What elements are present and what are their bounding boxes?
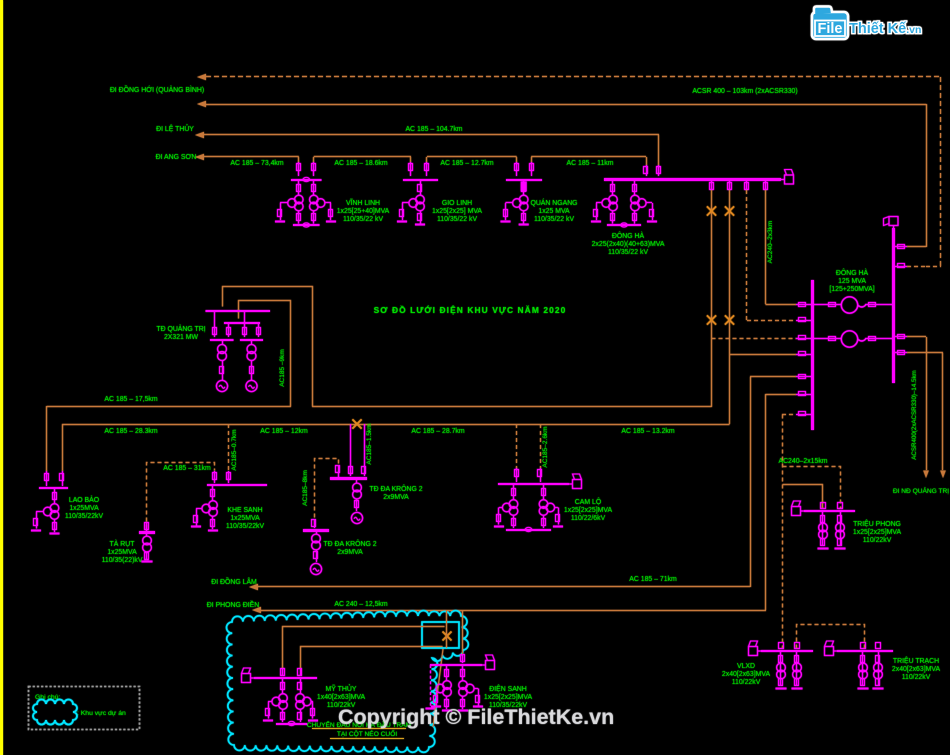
svg-text:1x25MVA: 1x25MVA <box>230 515 260 522</box>
svg-text:AC 185 – 28.3km: AC 185 – 28.3km <box>104 428 158 435</box>
switches above Lao Bao bus <box>46 471 48 486</box>
svg-text:1x25[25+40]MVA: 1x25[25+40]MVA <box>337 208 390 215</box>
bus DONG HA 220kV left (vertical) <box>811 280 814 430</box>
feeder x=765.5 from Dong Ha bus <box>765 180 767 191</box>
generator G1 <box>216 380 227 391</box>
bus TD QUANG TRI lower <box>224 322 260 324</box>
bus KHE SANH <box>207 484 267 486</box>
transformer VINH LINH T2 (3-winding) <box>313 180 315 196</box>
generator G2 <box>246 380 257 391</box>
wire dashed link VLXD to Trieu Trach <box>797 625 865 649</box>
arrow to Le Thuy <box>195 132 204 138</box>
stub y=414 dashed to left bus (AC240 feeder) <box>782 414 796 416</box>
wire from Phong Dien line down through X box <box>446 610 448 648</box>
arrow to Ang Son <box>195 154 204 160</box>
bus MY THUY <box>254 677 317 679</box>
bus generator bay 2 <box>240 339 263 341</box>
transformer TRIEU TRACH T1 (2-winding) <box>862 651 864 685</box>
wire dashed branch to Trieu Phong right <box>783 467 841 509</box>
transformer DONG HA T1 (3-winding) <box>612 180 614 196</box>
bus TRIEU PHONG <box>804 510 855 512</box>
svg-text:AC 240 – 12,5km: AC 240 – 12,5km <box>334 601 388 608</box>
svg-text:TĐ ĐA KRÔNG 2: TĐ ĐA KRÔNG 2 <box>323 539 376 548</box>
svg-text:110/22kV: 110/22kV <box>902 674 931 681</box>
stub y=320 dashed to left bus <box>747 320 796 322</box>
svg-text:2X321 MW: 2X321 MW <box>164 334 199 341</box>
svg-text:MỸ THỦY: MỸ THỦY <box>326 684 357 693</box>
switches above VLXD bus <box>779 643 784 649</box>
svg-text:1x40[2x63]MVA: 1x40[2x63]MVA <box>317 694 366 701</box>
stub y=337 right bus to ND Quang Tri 1 <box>893 336 907 338</box>
svg-text:File: File <box>818 21 843 37</box>
svg-text:AC 185 – 31km: AC 185 – 31km <box>163 465 211 472</box>
switches above Da Krong upper bus <box>336 466 340 473</box>
svg-text:ACSR400(2xACSR330)–14.5km: ACSR400(2xACSR330)–14.5km <box>911 370 918 459</box>
svg-text:2x40[2x63]MVA: 2x40[2x63]MVA <box>722 671 771 678</box>
drawing left border (yellow) <box>0 0 3 755</box>
transformer TRIEU PHONG T2 (2-winding) <box>840 511 842 545</box>
wire Ang Son line segment 3 (12.7km) <box>427 156 517 158</box>
svg-text:110/22kV: 110/22kV <box>863 537 892 544</box>
substation TA RUT <box>146 522 148 531</box>
transformer KHE SANH (3-winding) <box>212 485 214 501</box>
transformer VINH LINH T1 (3-winding) <box>298 180 300 196</box>
svg-text:110/22/6kV: 110/22/6kV <box>571 515 606 522</box>
svg-text:TÀ RỤT: TÀ RỤT <box>110 539 136 548</box>
legend cloud symbol <box>33 700 77 725</box>
ground bar CAM LO <box>506 529 551 531</box>
svg-text:ĐI ANG SƠN: ĐI ANG SƠN <box>156 154 197 161</box>
svg-text:110/35/22kV: 110/35/22kV <box>65 513 104 520</box>
svg-text:AC 185 – 17,5km: AC 185 – 17,5km <box>104 396 158 403</box>
svg-text:110/35(22)kV: 110/35(22)kV <box>102 557 143 564</box>
wire solid 110kV line to Dong Hoi (y=104) <box>206 104 926 106</box>
svg-text:1x25[2x25]MVA: 1x25[2x25]MVA <box>484 694 533 701</box>
svg-text:110/35/22 kV: 110/35/22 kV <box>534 216 575 223</box>
feeder x=747 dashed from Dong Ha bus <box>746 180 748 191</box>
transformer DONG HA 125MVA T1 <box>812 304 841 306</box>
svg-text:VLXD: VLXD <box>737 663 755 670</box>
wire vertical x=646 down to Dong Ha bus <box>646 157 648 165</box>
svg-text:CAM LỘ: CAM LỘ <box>575 497 602 506</box>
svg-text:ĐI ĐỒNG HỚI (QUẢNG BÌNH): ĐI ĐỒNG HỚI (QUẢNG BÌNH) <box>110 84 204 94</box>
transformer MY THUY T1 (3-winding) <box>282 678 284 694</box>
wire ACSR400 vertical dashed at right edge x=943 <box>940 77 942 266</box>
breaker flag at right end of Dong Ha bus <box>781 170 794 185</box>
transformer TRIEU PHONG T1 (2-winding) <box>822 511 824 545</box>
wire 28.3km line (y=424) <box>62 424 730 426</box>
wire Quang Tri feeder lower <box>239 301 291 407</box>
switches above Trieu Phong bus <box>821 503 826 509</box>
generator DA KRONG 2 lower <box>310 563 321 574</box>
dashed magenta tie at left of Dien Sanh <box>430 665 432 707</box>
svg-text:AC 185 – 11km: AC 185 – 11km <box>567 160 614 167</box>
svg-text:[125+250MVA]: [125+250MVA] <box>829 286 874 293</box>
transformer DA KRONG 2 upper (2-winding) <box>356 479 358 484</box>
grounds DIEN SANH <box>442 710 452 712</box>
bus DIEN SANH <box>430 664 482 666</box>
svg-text:KHE SANH: KHE SANH <box>227 507 262 514</box>
breaker flag left end Trieu Trach bus <box>825 641 838 656</box>
transformer QUAN NGANG (3-winding) <box>521 182 526 191</box>
transformer DIEN SANH T2 (3-winding) <box>462 665 464 681</box>
svg-text:: Khu vực dự án: : Khu vực dự án <box>77 710 126 717</box>
wire Lao Bao feeder 1 <box>46 406 48 471</box>
svg-text:AC 185 – 12km: AC 185 – 12km <box>260 428 308 435</box>
transformer MY THUY T2 (3-winding) <box>300 678 302 694</box>
svg-text:AC185–0.7km: AC185–0.7km <box>231 429 238 470</box>
svg-text:LAO BẢO: LAO BẢO <box>69 495 100 504</box>
wire dashed AC185-8km feeder <box>315 459 339 525</box>
arrows to ND Quang Tri <box>923 471 929 479</box>
substation GIO LINH feeders down from line <box>410 157 412 162</box>
svg-text:VĨNH LINH: VĨNH LINH <box>346 198 380 207</box>
wire vertical x=926 from line y=104 down to Dong Ha right bus <box>926 104 928 247</box>
breaker flag left end VLXD bus <box>749 641 762 656</box>
wire feeder 1 to My Thuy <box>283 627 445 669</box>
svg-text:1x25 MVA: 1x25 MVA <box>538 208 570 215</box>
wire dashed AC240-2x15km <box>782 415 784 649</box>
wire vertical x=750 up to left bus stub <box>750 377 752 587</box>
transformer TRIEU TRACH T2 (2-winding) <box>878 651 880 685</box>
bus TD QUANG TRI upper <box>206 310 271 312</box>
bus DONG HA 110kV main <box>604 178 781 181</box>
wire Quang Tri feeder upper (AC185-9km right) <box>223 287 313 407</box>
ground bar DONG HA <box>607 224 641 226</box>
svg-text:AC 185 – 28.7km: AC 185 – 28.7km <box>411 428 465 435</box>
stub y=305 to left bus <box>766 304 797 306</box>
svg-text:AC 185 – 104.7km: AC 185 – 104.7km <box>405 126 462 133</box>
bus GIO LINH 110kV <box>403 179 438 181</box>
node drops to generator buses <box>214 311 216 337</box>
breaker flag right end Dien Sanh bus <box>482 655 495 670</box>
transformer VLXD T2 (2-winding) <box>796 651 798 685</box>
wire line to Ang Son (y=157) segment 1 <box>204 156 299 158</box>
svg-text:2x25(2x40)(40+63)MVA: 2x25(2x40)(40+63)MVA <box>592 241 665 248</box>
svg-text:ĐI PHONG ĐIỀN: ĐI PHONG ĐIỀN <box>207 599 259 609</box>
wire right segment y=407 from Quang Tri to Dong Ha feeder <box>312 406 712 408</box>
wire AC 185 - 17.5km line (y=406) <box>47 406 291 408</box>
svg-text:1x25[2x25]MVA: 1x25[2x25]MVA <box>853 529 902 536</box>
switches above Khe Sanh bus <box>214 471 216 483</box>
svg-text:2x40[2x63]MVA: 2x40[2x63]MVA <box>892 666 941 673</box>
wire DI DONG LAM line (y=587) <box>258 586 750 588</box>
switches above Cam Lo bus <box>516 468 518 482</box>
transformer DIEN SANH T1 (3-winding) <box>446 665 448 681</box>
substation TD DA KRONG 2 lower <box>314 519 316 528</box>
wire line to Le Thuy (y=135) <box>204 134 659 136</box>
bus QUAN NGANG 110kV <box>506 179 542 181</box>
svg-text:Copyright © FileThietKe.vn: Copyright © FileThietKe.vn <box>338 705 614 729</box>
svg-text:GIO LINH: GIO LINH <box>442 200 472 207</box>
svg-text:QUÁN NGANG: QUÁN NGANG <box>530 198 577 207</box>
svg-text:1x25MVA: 1x25MVA <box>69 505 99 512</box>
feeder x=729 from Dong Ha bus (to 13.2km line) <box>729 180 731 191</box>
wire feeder from Phong Dien line to Dien Sanh <box>462 610 464 655</box>
svg-text:TRIỆU TRẠCH: TRIỆU TRẠCH <box>893 656 939 665</box>
wire Ang Son line segment 2 (18.6km) <box>314 156 411 158</box>
ground bar MY THUY <box>276 723 307 725</box>
transformer G2 (2-winding) <box>251 341 253 345</box>
generator DA KRONG 2 upper <box>351 512 362 523</box>
transformer VLXD T1 (2-winding) <box>780 651 782 685</box>
wire dashed AC185-31km from Ta Rut to Khe Sanh <box>147 463 215 529</box>
bus VLXD <box>761 650 813 652</box>
bus generator bay 1 <box>210 339 234 341</box>
wire Lao Bao feeder 2 <box>62 424 64 471</box>
svg-text:110/35/22 kV: 110/35/22 kV <box>608 249 649 256</box>
stub y=338 dashed to left bus <box>712 338 797 340</box>
logo FileThietKe.vn top right <box>812 7 921 40</box>
transformer CAM LO T1 (3-winding) <box>513 484 515 500</box>
svg-text:ĐI NĐ QUẢNG TRỊ: ĐI NĐ QUẢNG TRỊ <box>893 486 949 495</box>
stub y=394 to left bus (Phong Dien feeder) <box>766 394 797 396</box>
wire feeder 2 to My Thuy <box>301 647 443 669</box>
arrow to Dong Lam <box>249 584 258 590</box>
wire vertical x=659 down to Dong Ha bus <box>658 135 660 165</box>
svg-text:110/22kV: 110/22kV <box>732 679 761 686</box>
wire vertical x=766 up to left bus stub <box>765 394 767 610</box>
svg-text:TĐ QUẢNG TRỊ: TĐ QUẢNG TRỊ <box>156 324 205 333</box>
leader diagonal to note text <box>433 649 443 727</box>
svg-text:110/35/22kV: 110/35/22kV <box>226 523 265 530</box>
breaker flag left end My Thuy bus <box>242 668 255 683</box>
svg-text:ĐIỆN SANH: ĐIỆN SANH <box>489 684 527 693</box>
wire Ang Son line segment 4 (11km) <box>531 156 646 158</box>
svg-text:2x9MVA: 2x9MVA <box>383 494 409 501</box>
wire DI PHONG DIEN line (y=610) <box>261 610 766 612</box>
stub y=377 to left bus (Dong Lam feeder) <box>750 376 796 378</box>
transformer G1 (2-winding) <box>222 341 224 345</box>
svg-text:1x25[2x25]MVA: 1x25[2x25]MVA <box>564 507 613 514</box>
svg-text:ACSR 400 – 103km (2xACSR330): ACSR 400 – 103km (2xACSR330) <box>692 88 797 95</box>
bus TD DA KRONG 2 upper <box>330 477 367 480</box>
svg-text:TẠI CỘT NÉO CUỐI: TẠI CỘT NÉO CUỐI <box>337 728 397 738</box>
switches above Trieu Trach bus <box>861 643 866 649</box>
arrow to Dong Hoi (dashed line) <box>197 74 206 80</box>
svg-text:SƠ ĐỒ LƯỚI ĐIỆN KHU VỰC NĂM 20: SƠ ĐỒ LƯỚI ĐIỆN KHU VỰC NĂM 2020 <box>374 304 567 315</box>
svg-text:Thiết Kế.vn: Thiết Kế.vn <box>849 21 921 37</box>
legend box <box>29 687 140 730</box>
bus TRIEU TRACH <box>837 650 893 652</box>
svg-text:2x9MVA: 2x9MVA <box>337 549 363 556</box>
svg-text:AC240–2x15km: AC240–2x15km <box>778 458 827 465</box>
svg-text:110/35/22 kV: 110/35/22 kV <box>437 216 478 223</box>
bus LAO BAO <box>39 487 68 489</box>
stub y=354 to left bus <box>730 354 797 356</box>
transformer DONG HA 125MVA T2 <box>812 338 841 340</box>
svg-text:AC185–1.5km: AC185–1.5km <box>366 423 373 464</box>
svg-text:AC185–8km: AC185–8km <box>302 470 309 506</box>
svg-text:TĐ ĐA KRÔNG 2: TĐ ĐA KRÔNG 2 <box>369 484 422 493</box>
svg-text:TRIỆU PHONG: TRIỆU PHONG <box>853 519 901 528</box>
transformer GIO LINH (3-winding) <box>420 180 422 196</box>
transformer CAM LO T2 (3-winding) <box>543 484 545 500</box>
breaker flag left end Trieu Phong bus <box>792 501 805 516</box>
substation VINH LINH feeders down from line <box>298 157 300 162</box>
bus CAM LO <box>498 483 569 485</box>
svg-text:AC 185 – 12.7km: AC 185 – 12.7km <box>440 160 494 167</box>
svg-text:AC 185 – 13.2km: AC 185 – 13.2km <box>621 428 675 435</box>
svg-text:AC185–2.6km: AC185–2.6km <box>542 426 549 467</box>
svg-text:1x25[2x25] MVA: 1x25[2x25] MVA <box>432 208 482 215</box>
stub y=353 right bus to ND Quang Tri 2 <box>893 352 907 354</box>
transformer LAO BAO (3-winding) <box>54 488 56 504</box>
svg-text:ĐI LỆ THỦY: ĐI LỆ THỦY <box>156 124 194 133</box>
wire dashed AC185-0.7km feeder <box>228 424 230 471</box>
bus VINH LINH 110kV <box>291 179 322 181</box>
svg-text:AC 185 – 73,4km: AC 185 – 73,4km <box>230 160 284 167</box>
svg-text:110/35/22 kV: 110/35/22 kV <box>343 216 384 223</box>
feeders magenta from 28.3km line to Da Krong bus <box>350 424 352 476</box>
stub y=266 right bus to dashed line x=943 <box>893 266 907 268</box>
wire solid branch to Trieu Phong left <box>783 485 823 509</box>
switches above My Thuy bus <box>282 668 284 676</box>
feeder x=711 from Dong Ha bus (to 17.5km line) <box>711 180 713 191</box>
stub y=247 right bus to solid line x=926 <box>893 246 907 248</box>
wire ACSR400 dashed line to Dong Hoi (y=77) <box>206 76 941 78</box>
svg-text:AC240–2x3km: AC240–2x3km <box>767 221 774 264</box>
svg-text:ĐÔNG HÀ: ĐÔNG HÀ <box>836 268 869 277</box>
breaker flag on top of right bus <box>884 217 899 230</box>
substation QUAN NGANG feeders down from line <box>516 157 518 162</box>
bus DONG HA 220kV right (vertical) <box>892 228 895 383</box>
svg-text:AC185 –9km: AC185 –9km <box>279 349 286 387</box>
cloud project area boundary <box>227 611 469 753</box>
arrow to Phong Dien <box>252 607 261 613</box>
transformer DONG HA T2 (3-winding) <box>634 180 636 196</box>
svg-text:1x25MVA: 1x25MVA <box>107 549 137 556</box>
svg-text:125 MVA: 125 MVA <box>838 278 866 285</box>
svg-text:AC 185 – 71km: AC 185 – 71km <box>629 576 677 583</box>
svg-text:ĐI ĐỒNG LÂM: ĐI ĐỒNG LÂM <box>211 576 257 586</box>
wire down to ND Quang Tri arrows <box>926 337 928 470</box>
switch above Dien Sanh bus <box>462 655 464 663</box>
breaker flag right end Cam Lo bus <box>569 474 582 489</box>
cyan connection box with X <box>422 622 459 648</box>
svg-text:AC 185 – 18.6km: AC 185 – 18.6km <box>334 160 388 167</box>
svg-text:ĐÔNG HÀ: ĐÔNG HÀ <box>612 231 645 240</box>
switch on feeder x=646 above bus <box>646 165 648 176</box>
switch on feeder x=659 above bus <box>658 165 660 176</box>
ground bar VINH LINH <box>293 224 320 226</box>
arrow to Dong Hoi (solid line) <box>197 101 206 107</box>
wire dashed feeders to Cam Lo <box>516 424 518 468</box>
